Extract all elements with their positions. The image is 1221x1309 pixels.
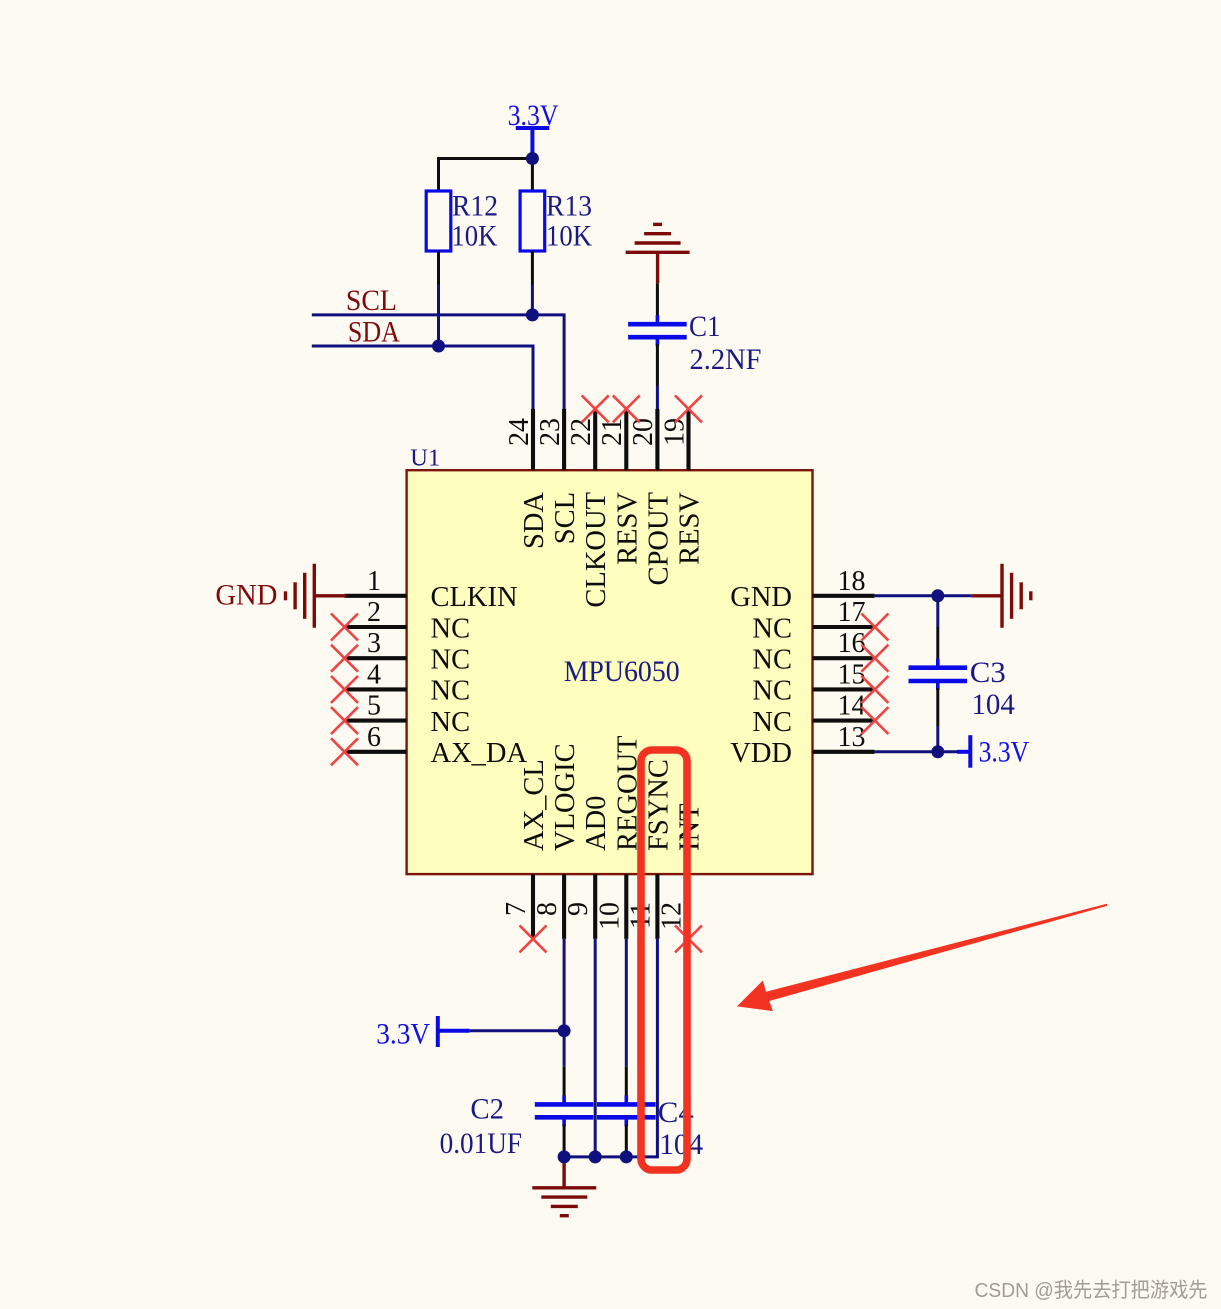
svg-text:R13: R13 <box>546 191 592 223</box>
no-connect X pin 5 <box>331 707 358 734</box>
wire pin 18 to GND net <box>875 594 972 597</box>
resistor R12 <box>426 191 451 251</box>
pin 20 top stub <box>655 409 659 470</box>
annotation red highlight box around FSYNC <box>641 750 687 1170</box>
svg-text:CPOUT: CPOUT <box>643 492 674 585</box>
wire ground bus <box>564 1155 626 1158</box>
svg-text:9: 9 <box>563 902 594 916</box>
wire ground stem to C1 <box>656 252 659 283</box>
node 3V3 top power rail wire <box>439 157 534 160</box>
svg-text:20: 20 <box>628 418 659 446</box>
wire C2 bottom lead <box>563 1124 566 1157</box>
pin 11 bottom stub <box>655 874 659 939</box>
pin 3 left stub <box>345 656 407 660</box>
svg-text:NC: NC <box>752 613 792 644</box>
svg-text:19: 19 <box>659 418 690 446</box>
svg-text:13: 13 <box>838 722 866 753</box>
pin 14 right stub <box>813 719 875 723</box>
ground symbol left <box>286 564 315 628</box>
wire 3V3 rail to R13 top <box>531 159 534 193</box>
pin 1 left stub <box>345 594 407 598</box>
no-connect X pin 6 <box>331 738 358 765</box>
no-connect X pin 17 <box>861 614 888 641</box>
svg-text:C1: C1 <box>689 310 721 343</box>
svg-text:5: 5 <box>367 691 381 722</box>
capacitor C4 <box>597 1095 656 1126</box>
ground symbol right <box>1002 564 1031 628</box>
svg-text:3: 3 <box>367 628 381 659</box>
power 3.3V bottom symbol <box>438 1016 470 1047</box>
no-connect X pin 3 <box>331 645 358 672</box>
no-connect X pin 15 <box>861 676 888 703</box>
svg-text:2.2NF: 2.2NF <box>690 343 762 376</box>
pin 19 top stub <box>686 409 690 470</box>
svg-text:22: 22 <box>566 418 597 446</box>
wire C4 top lead <box>625 1067 628 1097</box>
no-connect X pin 12 <box>675 925 702 952</box>
svg-text:CLKOUT: CLKOUT <box>581 492 612 608</box>
wire R12 to SDA net <box>437 285 440 348</box>
svg-text:10K: 10K <box>451 221 497 253</box>
no-connect X pin 4 <box>331 676 358 703</box>
pin 21 top stub <box>624 409 628 470</box>
svg-text:C3: C3 <box>970 656 1006 689</box>
svg-text:7: 7 <box>501 902 532 916</box>
svg-text:104: 104 <box>971 688 1015 721</box>
wire net SDA <box>312 346 533 410</box>
junction bus AD0 <box>589 1150 602 1163</box>
svg-text:8: 8 <box>532 902 563 916</box>
pin 22 top stub <box>593 409 597 470</box>
svg-text:15: 15 <box>838 659 866 690</box>
pin 17 right stub <box>813 625 875 629</box>
svg-text:AX_DA: AX_DA <box>431 738 528 769</box>
junction GND C3 <box>931 589 944 602</box>
svg-text:SCL: SCL <box>346 284 397 317</box>
junction SCL R13 <box>526 308 539 321</box>
wire R12 bottom lead <box>437 251 440 285</box>
power 3.3V top symbol <box>516 128 550 156</box>
svg-text:RESV: RESV <box>675 492 706 565</box>
wire left ground stem to pin 1 <box>314 594 346 597</box>
svg-text:10: 10 <box>594 902 625 930</box>
wire pin 10 REGOUT net <box>625 939 628 1067</box>
pin 5 left stub <box>345 719 407 723</box>
pin 15 right stub <box>813 687 875 691</box>
wire 3V3 rail to R12 top <box>437 157 440 192</box>
svg-text:3.3V: 3.3V <box>508 99 559 132</box>
power 3.3V right symbol <box>957 735 970 768</box>
wire GND net to C3 <box>936 596 939 627</box>
svg-text:RESV: RESV <box>612 492 643 565</box>
wire R13 bottom lead <box>531 251 534 285</box>
svg-text:6: 6 <box>367 722 381 753</box>
svg-text:14: 14 <box>838 691 866 722</box>
wire C1 to pin 20 CPOUT <box>656 386 659 410</box>
wire pin 9 AD0 to ground bus <box>594 939 597 1157</box>
svg-text:10K: 10K <box>546 221 592 253</box>
wire right ground stem <box>971 594 1002 597</box>
svg-text:16: 16 <box>838 628 866 659</box>
svg-text:3.3V: 3.3V <box>376 1018 430 1051</box>
pin 9 bottom stub <box>593 874 597 939</box>
capacitor C2 <box>535 1095 594 1126</box>
svg-text:CSDN @我先去打把游戏先: CSDN @我先去打把游戏先 <box>975 1279 1208 1302</box>
svg-text:4: 4 <box>367 659 381 690</box>
wire C3 top lead <box>936 627 939 661</box>
junction bus C2 <box>558 1150 571 1163</box>
wire C3 to VDD net <box>936 726 939 752</box>
svg-text:MPU6050: MPU6050 <box>564 655 680 688</box>
svg-text:NC: NC <box>431 707 471 738</box>
svg-text:GND: GND <box>215 578 277 611</box>
svg-text:AD0: AD0 <box>581 796 612 851</box>
pin 10 bottom stub <box>624 874 628 939</box>
no-connect X pin 2 <box>331 614 358 641</box>
svg-text:C2: C2 <box>470 1093 504 1126</box>
junction bus REGOUT <box>620 1150 633 1163</box>
svg-text:VLOGIC: VLOGIC <box>550 743 581 851</box>
pin 16 right stub <box>813 656 875 660</box>
svg-text:23: 23 <box>535 418 566 446</box>
svg-text:GND: GND <box>730 582 792 613</box>
svg-text:1: 1 <box>367 566 381 597</box>
svg-text:SCL: SCL <box>550 492 581 544</box>
junction SDA R12 <box>432 340 445 353</box>
pin 24 top stub <box>531 409 535 470</box>
no-connect X pin 21 <box>613 395 640 422</box>
junction 3.3V VLOGIC <box>558 1024 571 1037</box>
svg-text:CLKIN: CLKIN <box>431 582 518 613</box>
svg-text:NC: NC <box>752 676 792 707</box>
pin 13 right stub <box>813 750 875 754</box>
svg-text:SDA: SDA <box>519 492 550 549</box>
capacitor C1 <box>628 315 687 346</box>
svg-text:104: 104 <box>659 1128 703 1161</box>
wire 3.3V to pin 8 VLOGIC <box>470 1029 564 1032</box>
pin 23 top stub <box>562 409 566 470</box>
svg-text:24: 24 <box>504 418 535 446</box>
pin 12 bottom stub <box>686 874 690 939</box>
capacitor C3 <box>909 659 968 690</box>
svg-text:VDD: VDD <box>730 738 792 769</box>
wire net SCL <box>312 315 564 410</box>
no-connect X pin 22 <box>582 395 609 422</box>
svg-text:12: 12 <box>657 902 688 930</box>
no-connect X pin 14 <box>861 707 888 734</box>
wire C4 bottom lead <box>625 1124 628 1157</box>
pin 18 right stub <box>813 594 875 598</box>
wire C1 top lead <box>656 283 659 317</box>
pin 8 bottom stub <box>562 874 566 939</box>
wire pin 8 column VLOGIC net <box>563 939 566 1067</box>
svg-text:AX_CL: AX_CL <box>519 759 550 851</box>
svg-text:21: 21 <box>597 418 628 446</box>
svg-text:NC: NC <box>752 645 792 676</box>
pin 4 left stub <box>345 687 407 691</box>
wire pin 13 VDD to 3.3V <box>875 750 957 753</box>
wire R13 to SCL net <box>531 285 534 317</box>
junction VDD C3 <box>931 745 944 758</box>
ground symbol bottom <box>532 1188 596 1216</box>
pin 7 bottom stub <box>531 874 535 939</box>
wire C3 bottom lead <box>936 688 939 726</box>
wire C2 top lead <box>563 1067 566 1097</box>
svg-text:NC: NC <box>431 613 471 644</box>
op-amp U1 IC body MPU6050 <box>407 470 813 874</box>
no-connect X pin 7 <box>520 925 547 952</box>
svg-text:3.3V: 3.3V <box>979 736 1030 769</box>
svg-text:NC: NC <box>752 707 792 738</box>
junction top rail <box>526 152 539 165</box>
pin 6 left stub <box>345 750 407 754</box>
svg-text:17: 17 <box>838 597 866 628</box>
svg-text:2: 2 <box>367 597 381 628</box>
svg-text:NC: NC <box>431 645 471 676</box>
wire bottom ground stem <box>563 1157 566 1163</box>
svg-text:0.01UF: 0.01UF <box>440 1127 522 1160</box>
no-connect X pin 19 <box>675 395 702 422</box>
resistor R13 <box>520 191 545 251</box>
no-connect X pin 16 <box>861 645 888 672</box>
svg-text:18: 18 <box>838 566 866 597</box>
pin 2 left stub <box>345 625 407 629</box>
wire C1 bottom lead <box>656 344 659 386</box>
annotation red arrow <box>737 904 1108 1011</box>
svg-text:SDA: SDA <box>348 315 400 348</box>
ground above C1 <box>626 224 690 252</box>
svg-text:U1: U1 <box>410 445 440 472</box>
svg-text:FSYNC: FSYNC <box>643 759 674 851</box>
wire pin 11 FSYNC to ground bus <box>624 939 657 1157</box>
svg-text:NC: NC <box>431 676 471 707</box>
svg-text:R12: R12 <box>452 191 498 223</box>
